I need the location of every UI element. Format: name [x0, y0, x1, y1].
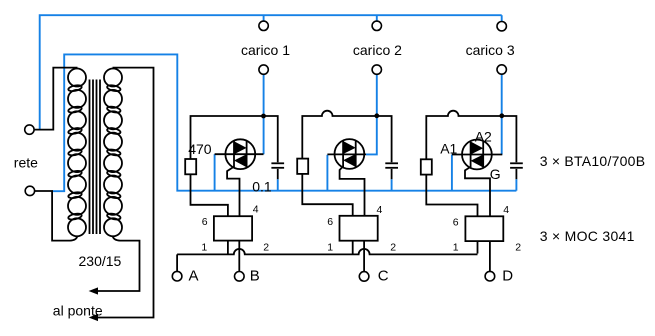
wire blue cap2 bottom to rail [391, 179, 393, 191]
wire resistor2 bottom to MOC2 pin6 [302, 174, 352, 216]
wire blue carico3 bottom to triac T2 [501, 74, 503, 155]
junction dot node carico1/triac1 [261, 114, 266, 119]
wire rail to terminal A [176, 254, 178, 271]
wire MOC1 pin1 to bottom rail [227, 241, 229, 255]
resistor 470 ch2 [297, 159, 308, 174]
wire blue carico1 bottom to triac T2 [263, 74, 265, 154]
terminal carico2 bottom [372, 65, 381, 74]
terminal rete N [25, 186, 34, 195]
wire blue triac3 T1 to rail [451, 155, 453, 191]
channel 1 [185, 114, 284, 272]
terminal carico3 bottom [497, 65, 506, 74]
svg-text:6: 6 [202, 216, 208, 228]
terminal B [235, 272, 245, 282]
capacitor 0.1 ch2 [385, 163, 398, 179]
wire snubber2 top rail with hop [302, 111, 391, 163]
terminal C [359, 272, 369, 282]
wire blue carico2 bottom to triac T2 [366, 74, 377, 154]
wire blue triac2 T1 to rail [326, 155, 328, 191]
capacitor 0.1 ch1 [271, 163, 284, 179]
wire blue cap1 bottom to rail [277, 179, 279, 191]
svg-text:470: 470 [188, 141, 212, 157]
optocoupler MOC1 [214, 216, 252, 240]
svg-text:rete: rete [14, 155, 38, 171]
triac Q2 [335, 139, 365, 169]
wire bottom rail with hops over B and C [177, 249, 477, 254]
wire blue top rail L [40, 15, 502, 129]
svg-text:A1: A1 [440, 140, 457, 156]
terminal A [172, 271, 182, 281]
terminal carico2 top [372, 21, 381, 30]
resistor 470 ch1 [185, 159, 196, 174]
svg-text:B: B [250, 267, 260, 284]
wire rete top terminal to primary top [34, 68, 78, 130]
svg-text:D: D [502, 267, 513, 284]
svg-text:0.1: 0.1 [252, 179, 272, 195]
arrowhead al ponte lower [89, 314, 98, 321]
svg-text:carico 2: carico 2 [353, 42, 402, 58]
svg-text:A: A [189, 267, 199, 284]
terminal carico1 bottom [259, 65, 268, 74]
svg-text:6: 6 [453, 216, 459, 228]
svg-text:230/15: 230/15 [79, 253, 122, 269]
wire triac1 gate to MOC1 pin4 [227, 167, 239, 217]
triac Q1 [225, 139, 255, 169]
svg-text:2: 2 [390, 241, 396, 253]
channel 3 [421, 111, 523, 272]
wire secondary bottom to al ponte (upper arrow) [98, 236, 140, 291]
wire triac3 gate to MOC3 pin4 [465, 167, 490, 216]
wire MOC2 pin1 to bottom rail [352, 241, 354, 255]
svg-text:C: C [378, 267, 389, 284]
resistor 470 ch3 [421, 159, 432, 174]
svg-text:4: 4 [253, 204, 259, 216]
terminal rete L [25, 125, 34, 134]
channel 2 [297, 111, 398, 272]
wire snubber1 top rail [191, 116, 278, 162]
wire resistor3 bottom to MOC3 pin6 [426, 175, 477, 217]
secondary winding [104, 69, 122, 237]
svg-text:carico 3: carico 3 [466, 42, 515, 58]
optocoupler MOC3 [465, 216, 503, 241]
svg-text:1: 1 [453, 241, 459, 253]
svg-text:3 × BTA10/700B: 3 × BTA10/700B [540, 153, 646, 169]
svg-text:4: 4 [503, 204, 509, 216]
wire blue triac1 T1 to rail [214, 154, 216, 191]
wire blue secondary mains rail [52, 54, 516, 191]
transformer TR1 [34, 68, 122, 241]
svg-text:3 × MOC 3041: 3 × MOC 3041 [540, 228, 635, 244]
wire triac2 main terminals [327, 153, 366, 155]
terminal D [485, 271, 495, 281]
svg-text:2: 2 [515, 241, 521, 253]
wire triac2 gate to MOC2 pin4 [340, 166, 365, 215]
wire MOC2 pin2 to terminal C [363, 241, 365, 272]
svg-text:1: 1 [327, 241, 333, 253]
wire blue cap3 bottom to rail [515, 179, 517, 191]
svg-text:1: 1 [201, 241, 207, 253]
wire MOC1 pin2 to terminal B [238, 241, 240, 272]
wire blue drop to carico2 top terminal [376, 15, 378, 21]
capacitor 0.1 ch3 [510, 163, 523, 179]
svg-text:A2: A2 [475, 129, 492, 145]
svg-text:6: 6 [327, 216, 333, 228]
arrowhead al ponte upper [89, 287, 98, 294]
svg-text:4: 4 [377, 204, 383, 216]
triac Q3 [462, 140, 492, 170]
junction dot node carico3/triac3 [499, 113, 504, 118]
svg-text:al ponte: al ponte [53, 303, 103, 319]
svg-text:G: G [490, 166, 501, 182]
optocoupler MOC2 [340, 216, 378, 241]
wire triac1 main terminals [215, 153, 264, 155]
wire triac3 main terminals [452, 154, 502, 156]
wire MOC3 pin1 to bottom rail [477, 241, 479, 253]
wire secondary top to al ponte (lower arrow) [98, 68, 154, 318]
wire blue drop to carico3 top terminal [501, 15, 503, 21]
wire blue drop to carico1 top terminal [263, 15, 265, 21]
terminal carico3 top [497, 22, 506, 31]
core [90, 80, 101, 235]
wire resistor1 bottom to MOC1 pin6 [191, 174, 228, 216]
wire snubber3 top rail with hop [426, 111, 516, 163]
wire MOC3 pin2 to terminal D [489, 241, 491, 271]
svg-text:2: 2 [263, 241, 269, 253]
wire rete bottom terminal to primary bottom [35, 191, 78, 241]
junction dot node carico2/triac2 [374, 113, 379, 118]
primary winding [68, 69, 86, 237]
terminal carico1 top [259, 21, 268, 30]
svg-text:carico 1: carico 1 [241, 42, 290, 58]
